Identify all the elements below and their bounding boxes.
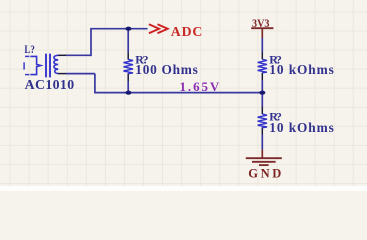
wire: R1 top lead xyxy=(127,29,129,53)
resistor R1 zigzag xyxy=(124,59,134,73)
wire: bottom rail 1.65V net xyxy=(94,92,262,94)
pin: R3 pin1 xyxy=(261,107,263,115)
svg-text:L?: L? xyxy=(24,44,35,56)
pin: transformer secondary bottom xyxy=(58,73,66,75)
pin: R3 pin2 xyxy=(261,127,263,134)
resistor R3 zigzag xyxy=(258,114,267,128)
junction dot at R1 top node xyxy=(125,27,131,31)
ground stem xyxy=(261,150,263,159)
sheet background xyxy=(0,0,367,191)
wire: left riser up xyxy=(90,29,92,56)
svg-text:ADC: ADC xyxy=(171,24,203,39)
pin: R2 pin1 xyxy=(261,52,263,59)
wire: R3 bottom to GND xyxy=(261,135,263,150)
pin: transformer secondary top xyxy=(58,54,66,56)
wire: transformer bottom terminal to right xyxy=(66,73,95,75)
svg-text:GND: GND xyxy=(248,167,281,181)
power port 3V3 bar xyxy=(251,27,273,29)
wire: 3V3 to R2 xyxy=(261,38,263,52)
transformer L1 secondary winding loops xyxy=(54,55,58,73)
resistor R2 zigzag xyxy=(258,59,267,73)
junction dot at R1 bottom node xyxy=(125,91,131,95)
transformer L1 core lines xyxy=(46,54,50,78)
svg-text:AC1010: AC1010 xyxy=(25,77,75,92)
ground bar 1 xyxy=(246,157,282,159)
svg-text:100 Ohms: 100 Ohms xyxy=(135,62,198,77)
svg-text:3V3: 3V3 xyxy=(252,16,270,30)
svg-text:10 kOhms: 10 kOhms xyxy=(269,62,334,77)
port chevron ADC xyxy=(149,24,168,33)
ground bar 2 xyxy=(252,161,276,163)
wire: top horizontal to ADC port xyxy=(90,28,147,30)
wire: transformer top terminal to left riser xyxy=(66,54,91,56)
svg-text:10 kOhms: 10 kOhms xyxy=(269,120,334,135)
transformer L1 primary winding xyxy=(30,56,40,74)
transformer L1 dashed primary bracket xyxy=(24,56,29,74)
pin: R1 pin1 xyxy=(127,52,129,59)
junction dot at divider mid node xyxy=(259,91,265,95)
power port 3V3 stem xyxy=(261,28,263,38)
ground bar 3 xyxy=(259,164,269,166)
pin: R1 pin2 xyxy=(127,73,129,81)
wire: R1 bottom lead xyxy=(127,81,129,93)
pin: R2 pin2 xyxy=(261,73,263,80)
wire: R2 bottom to junction xyxy=(261,80,263,107)
wire: drop to bottom rail xyxy=(94,74,96,93)
